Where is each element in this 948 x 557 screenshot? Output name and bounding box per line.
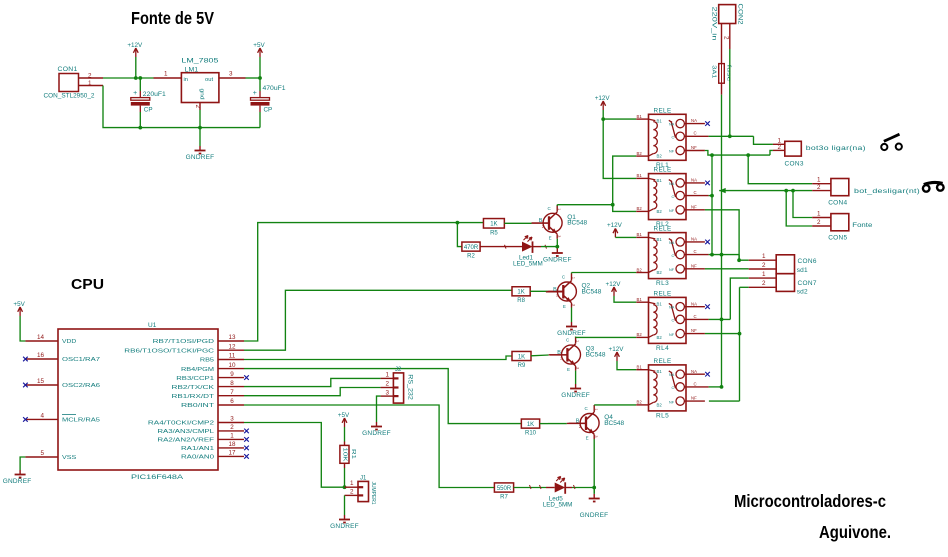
svg-text:NF: NF [669, 333, 675, 337]
svg-text:R5: R5 [490, 230, 498, 236]
svg-text:Fonte de 5V: Fonte de 5V [131, 8, 214, 28]
svg-text:1: 1 [817, 177, 821, 184]
svg-text:PIC16F648A: PIC16F648A [131, 474, 184, 481]
svg-text:VDD: VDD [62, 339, 76, 345]
svg-text:RB3/CCP1: RB3/CCP1 [176, 376, 214, 382]
svg-text:RL3: RL3 [656, 280, 669, 287]
svg-text:B1: B1 [637, 297, 643, 302]
svg-text:2: 2 [230, 424, 234, 431]
svg-text:B2: B2 [657, 402, 663, 407]
svg-text:Fonte: Fonte [852, 222, 872, 229]
svg-text:RB6/T1OSO/T1CKI/PGC: RB6/T1OSO/T1CKI/PGC [124, 348, 214, 354]
svg-text:+5V: +5V [13, 301, 25, 308]
svg-text:BC548: BC548 [604, 420, 624, 427]
svg-text:BC548: BC548 [586, 351, 606, 358]
svg-text:550R: 550R [497, 486, 512, 492]
svg-text:GNDREF: GNDREF [561, 392, 590, 399]
svg-text:2: 2 [542, 225, 544, 229]
svg-text:NA: NA [691, 118, 697, 123]
svg-text:B2: B2 [657, 270, 663, 275]
svg-text:CON6: CON6 [798, 258, 817, 265]
svg-text:NA: NA [691, 178, 697, 183]
svg-text:CON2: CON2 [737, 4, 744, 26]
svg-text:B1: B1 [657, 237, 663, 242]
svg-text:NA: NA [669, 241, 675, 245]
svg-text:B: B [557, 350, 561, 356]
svg-text:5: 5 [40, 450, 44, 457]
svg-text:C: C [672, 195, 675, 199]
svg-text:2: 2 [762, 280, 766, 287]
svg-text:B1: B1 [657, 302, 663, 307]
svg-text:RS_232: RS_232 [407, 374, 414, 400]
svg-text:NA: NA [669, 182, 675, 186]
svg-text:C: C [672, 254, 675, 258]
svg-text:C: C [672, 136, 675, 140]
svg-text:220uF1: 220uF1 [143, 91, 167, 98]
svg-text:E: E [563, 304, 566, 309]
svg-text:1K: 1K [517, 290, 524, 296]
svg-text:C: C [694, 249, 697, 254]
svg-text:C: C [672, 386, 675, 390]
svg-text:RELE: RELE [654, 107, 672, 114]
svg-text:+12V: +12V [609, 346, 625, 353]
svg-text:GNDREF: GNDREF [3, 478, 32, 485]
svg-text:NF: NF [669, 400, 675, 404]
svg-text:RA1/AN1: RA1/AN1 [181, 446, 214, 452]
svg-text:RL4: RL4 [656, 345, 669, 352]
svg-text:2: 2 [556, 294, 558, 298]
svg-text:B2: B2 [637, 332, 643, 337]
svg-text:B1: B1 [657, 119, 663, 124]
svg-text:1: 1 [762, 271, 766, 278]
svg-text:E: E [586, 436, 589, 441]
svg-text:CON4: CON4 [828, 199, 847, 206]
svg-text:GNDREF: GNDREF [330, 523, 359, 530]
svg-text:NF: NF [669, 209, 675, 213]
svg-text:+5V: +5V [253, 42, 265, 49]
svg-text:8: 8 [230, 380, 234, 387]
svg-text:RA4/T0CKI/CMP2: RA4/T0CKI/CMP2 [148, 421, 214, 427]
svg-text:+: + [133, 90, 137, 97]
svg-text:RB4/PGM: RB4/PGM [181, 367, 214, 373]
svg-text:2: 2 [88, 72, 92, 79]
svg-text:GNDREF: GNDREF [362, 430, 391, 437]
svg-text:J1: J1 [360, 476, 367, 482]
svg-text:CP: CP [144, 107, 153, 114]
svg-text:1: 1 [88, 80, 92, 87]
svg-text:220V_in: 220V_in [711, 7, 718, 42]
svg-text:E: E [567, 367, 570, 372]
svg-text:12: 12 [228, 343, 236, 350]
svg-text:RL5: RL5 [656, 413, 669, 420]
svg-text:2: 2 [778, 144, 782, 151]
svg-text:3: 3 [230, 416, 234, 423]
svg-text:RELE: RELE [654, 358, 672, 365]
svg-text:B1: B1 [637, 232, 643, 237]
svg-text:2: 2 [762, 262, 766, 269]
svg-text:14: 14 [37, 334, 45, 341]
svg-text:VSS: VSS [62, 455, 77, 461]
svg-text:GNDREF: GNDREF [580, 512, 609, 519]
svg-text:CPU: CPU [71, 277, 104, 293]
svg-text:NF: NF [669, 268, 675, 272]
svg-text:1: 1 [817, 211, 821, 218]
svg-text:+12V: +12V [595, 95, 611, 102]
svg-text:+5V: +5V [338, 412, 350, 419]
svg-text:B1: B1 [637, 114, 643, 119]
svg-text:NA: NA [691, 237, 697, 242]
svg-text:C: C [672, 319, 675, 323]
svg-text:15: 15 [37, 378, 45, 385]
svg-text:bot3o ligar(na): bot3o ligar(na) [806, 145, 866, 152]
svg-text:4: 4 [40, 413, 44, 420]
svg-text:R9: R9 [518, 363, 526, 369]
svg-text:Aguivone.: Aguivone. [819, 522, 891, 542]
svg-text:out: out [205, 77, 213, 83]
svg-text:B: B [576, 418, 580, 424]
svg-text:C: C [694, 131, 697, 136]
svg-text:3: 3 [386, 389, 390, 396]
svg-text:3A1: 3A1 [710, 65, 716, 78]
svg-text:B2: B2 [657, 209, 663, 214]
svg-text:B: B [539, 218, 543, 224]
svg-text:E: E [549, 235, 552, 240]
svg-text:B2: B2 [637, 151, 643, 156]
svg-text:B1: B1 [657, 178, 663, 183]
svg-text:9: 9 [230, 371, 234, 378]
svg-text:CON_STL2950_2: CON_STL2950_2 [44, 93, 95, 100]
svg-text:BC548: BC548 [567, 220, 587, 227]
svg-text:bot_desligar(nt): bot_desligar(nt) [854, 188, 920, 195]
svg-text:R7: R7 [500, 494, 508, 500]
svg-text:CON3: CON3 [785, 161, 804, 168]
svg-text:CON5: CON5 [828, 235, 847, 242]
svg-text:2: 2 [350, 489, 354, 496]
svg-text:NF: NF [691, 263, 697, 268]
svg-text:1: 1 [350, 480, 354, 487]
svg-text:470R: 470R [464, 245, 479, 251]
svg-text:NA: NA [669, 373, 675, 377]
svg-text:RELE: RELE [654, 167, 672, 174]
svg-text:NF: NF [691, 396, 697, 401]
svg-text:2: 2 [723, 36, 730, 40]
svg-text:in: in [184, 77, 189, 83]
svg-text:CON7: CON7 [798, 280, 817, 287]
svg-text:B1: B1 [637, 365, 643, 370]
svg-text:+12V: +12V [606, 281, 622, 288]
svg-text:1: 1 [762, 253, 766, 260]
svg-text:U1: U1 [148, 322, 157, 329]
svg-text:RB0/INT: RB0/INT [181, 403, 215, 409]
svg-text:MCLR/RA5: MCLR/RA5 [62, 418, 100, 424]
svg-text:1K: 1K [518, 354, 525, 360]
svg-text:1K: 1K [490, 222, 497, 228]
svg-text:1: 1 [164, 71, 168, 78]
svg-text:RB5: RB5 [200, 358, 214, 364]
svg-text:470uF1: 470uF1 [263, 85, 287, 92]
svg-text:2: 2 [386, 381, 390, 388]
svg-text:LED_5MM: LED_5MM [543, 502, 573, 509]
svg-text:RA3/AN3/CMPL: RA3/AN3/CMPL [157, 429, 214, 435]
svg-text:B: B [553, 287, 557, 293]
svg-text:B2: B2 [657, 154, 663, 159]
svg-text:R1: R1 [350, 449, 356, 459]
svg-text:RELE: RELE [654, 290, 672, 297]
svg-text:RA0/AN0: RA0/AN0 [181, 455, 214, 461]
svg-text:C: C [694, 314, 697, 319]
svg-text:1: 1 [230, 433, 234, 440]
svg-text:B1: B1 [657, 369, 663, 374]
svg-text:RB2/TX/CK: RB2/TX/CK [172, 385, 215, 391]
svg-text:LM_7805: LM_7805 [181, 58, 218, 65]
svg-text:11: 11 [229, 353, 236, 360]
svg-text:16: 16 [37, 352, 45, 359]
svg-text:6: 6 [230, 398, 234, 405]
svg-text:NF: NF [691, 328, 697, 333]
svg-text:RELE: RELE [654, 226, 672, 233]
svg-text:13: 13 [228, 334, 236, 341]
svg-text:2: 2 [194, 105, 201, 109]
svg-text:B2: B2 [637, 267, 643, 272]
svg-text:2: 2 [817, 219, 821, 226]
svg-text:NA: NA [691, 369, 697, 374]
svg-text:C: C [694, 190, 697, 195]
svg-text:NF: NF [691, 145, 697, 150]
svg-text:CON1: CON1 [58, 66, 78, 73]
svg-text:NA: NA [669, 123, 675, 127]
svg-text:C: C [694, 381, 697, 386]
svg-text:R10: R10 [525, 430, 537, 436]
svg-text:B2: B2 [637, 206, 643, 211]
svg-text:GNDREF: GNDREF [186, 154, 215, 161]
svg-text:BC548: BC548 [582, 288, 602, 295]
svg-text:OSC2/RA6: OSC2/RA6 [62, 383, 100, 389]
svg-text:1K: 1K [527, 422, 534, 428]
svg-text:RA2/AN2/VREF: RA2/AN2/VREF [157, 438, 214, 444]
svg-text:10: 10 [228, 362, 236, 369]
svg-text:B2: B2 [637, 400, 643, 405]
svg-text:RB1/RX/DT: RB1/RX/DT [172, 394, 215, 400]
svg-text:sd1: sd1 [797, 267, 808, 274]
svg-text:J2: J2 [395, 367, 402, 373]
svg-text:2: 2 [560, 357, 562, 361]
svg-text:fuse: fuse [726, 65, 732, 82]
svg-text:2: 2 [579, 425, 581, 429]
svg-text:NA: NA [669, 306, 675, 310]
svg-text:Microcontroladores-c: Microcontroladores-c [734, 491, 886, 511]
svg-text:gnd: gnd [198, 89, 204, 100]
svg-text:GNDREF: GNDREF [543, 257, 572, 264]
svg-text:3: 3 [229, 71, 233, 78]
svg-text:18: 18 [228, 441, 236, 448]
svg-text:CP: CP [264, 107, 273, 114]
svg-text:JUMPER1: JUMPER1 [370, 482, 376, 505]
svg-text:1: 1 [386, 372, 390, 379]
svg-text:NF: NF [669, 150, 675, 154]
svg-text:NA: NA [691, 301, 697, 306]
svg-text:7: 7 [230, 389, 234, 396]
svg-text:10K: 10K [341, 448, 347, 462]
svg-text:sd2: sd2 [797, 289, 808, 296]
svg-text:NF: NF [691, 204, 697, 209]
svg-text:+: + [253, 90, 257, 97]
svg-text:R8: R8 [517, 298, 525, 304]
svg-text:R2: R2 [467, 253, 475, 259]
svg-text:RB7/T1OSI/PGD: RB7/T1OSI/PGD [153, 339, 214, 345]
svg-text:17: 17 [228, 450, 236, 457]
svg-text:+12V: +12V [127, 42, 143, 49]
svg-text:OSC1/RA7: OSC1/RA7 [62, 357, 100, 363]
svg-text:B1: B1 [637, 173, 643, 178]
svg-text:LM1: LM1 [185, 67, 199, 74]
svg-text:B2: B2 [657, 335, 663, 340]
svg-text:LED_5MM: LED_5MM [513, 261, 543, 268]
svg-text:+12V: +12V [607, 222, 623, 229]
svg-text:2: 2 [817, 184, 821, 191]
svg-text:GNDREF: GNDREF [557, 330, 586, 337]
